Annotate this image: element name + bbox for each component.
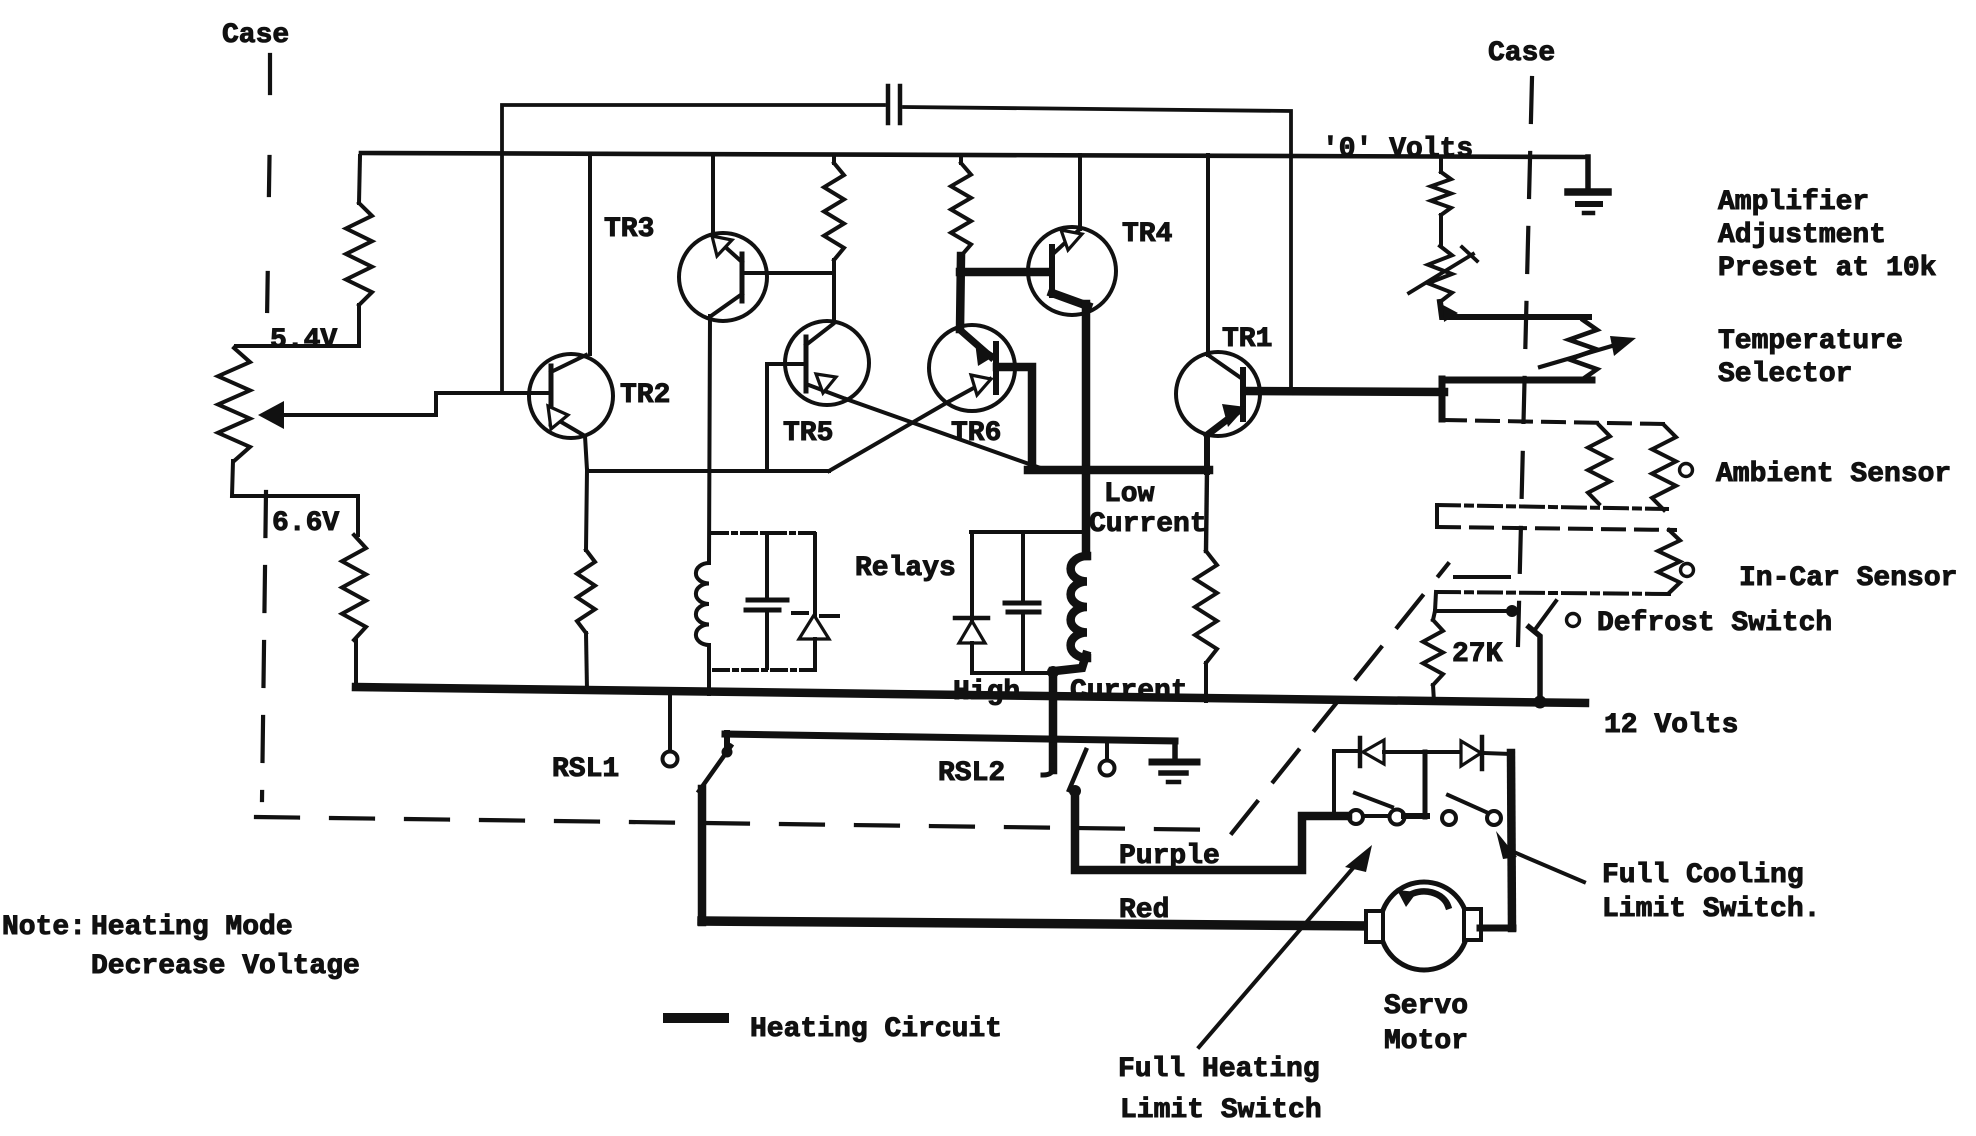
capacitor (RSL2 suppression) xyxy=(1021,532,1025,600)
wire selector node down (heating circuit) xyxy=(1439,379,1446,419)
resistor (0V to TR5 collector) xyxy=(832,156,836,163)
relay RSL1 box bottom (dash-dot) xyxy=(714,668,816,672)
svg-text:Limit Switch: Limit Switch xyxy=(1120,1095,1322,1126)
svg-text:Amplifier: Amplifier xyxy=(1718,187,1869,218)
wire 12 Volts rail xyxy=(356,687,1585,703)
wire diode loop right leg (heating circuit) xyxy=(1511,753,1512,928)
potentiometer wiper arrow xyxy=(258,401,284,429)
junction dot on 12V rail xyxy=(1534,696,1547,709)
wire limit switch centre link xyxy=(1404,813,1427,819)
relay RSL2 box left xyxy=(970,532,974,673)
transistor TR2 xyxy=(529,354,613,438)
switch RSL2 moving arm xyxy=(1069,750,1086,790)
wire TR1 emitter xyxy=(1204,435,1210,472)
wire TR5 collector xyxy=(832,260,836,322)
switch RSL2 pole wire from coil xyxy=(1043,766,1053,775)
wire Purple (heating circuit) xyxy=(1075,791,1348,870)
svg-text:6.6V: 6.6V xyxy=(272,508,339,539)
svg-text:TR4: TR4 xyxy=(1122,219,1172,250)
wire 5.4V node xyxy=(236,344,359,348)
svg-text:Case: Case xyxy=(222,20,289,51)
svg-text:Current: Current xyxy=(1070,676,1188,707)
temperature selector rheostat xyxy=(1569,320,1597,379)
wire to in-car sensor (dashed) xyxy=(1438,527,1675,530)
resistor (TR1 emitter to rail) xyxy=(1206,470,1207,551)
servo motor rotation arrow xyxy=(1408,891,1448,906)
svg-text:Decrease Voltage: Decrease Voltage xyxy=(91,951,360,982)
capacitor C1 (top feedback) xyxy=(886,86,891,123)
wire TR4 collector xyxy=(1078,155,1082,229)
wire TR1 collector xyxy=(1206,155,1210,355)
wire Red (heating circuit) xyxy=(702,921,1370,926)
wire RSL1 arm to RSL2/ground (heating circuit) xyxy=(725,734,1175,741)
in-car sensor terminal xyxy=(1681,564,1694,577)
wire low-current node to TR1 emitter (heating circuit) xyxy=(1028,466,1209,475)
capacitor (RSL1 suppression) xyxy=(765,533,769,597)
wire TR6 base (heating circuit) xyxy=(997,367,1032,466)
arrow full-heating pointer xyxy=(1345,845,1372,872)
wire to ambient sensor (dashed) xyxy=(1444,420,1664,424)
wire preset to selector top (heating circuit) xyxy=(1440,302,1589,317)
wire RSL2 coil to switch (heating circuit) xyxy=(1053,655,1086,770)
potentiometer (temperature bridge) xyxy=(218,348,250,461)
wire top feedback loop left+top xyxy=(502,105,884,393)
dashed heating-mode boundary (diagonal) xyxy=(1232,564,1448,833)
transistor TR3 xyxy=(679,233,767,321)
relay RSL1 coil xyxy=(696,563,709,645)
svg-text:Ambient Sensor: Ambient Sensor xyxy=(1716,459,1951,490)
diode (RSL1 suppression) xyxy=(799,615,829,639)
svg-text:Full Heating: Full Heating xyxy=(1118,1054,1320,1085)
switch defrost moving arm xyxy=(1534,601,1556,631)
wire TR5 base xyxy=(767,362,804,366)
relay RSL1 box right side xyxy=(813,534,817,669)
svg-text:RSL1: RSL1 xyxy=(552,754,619,785)
wire TR1 base (heating circuit) xyxy=(1245,391,1444,392)
resistor (0V to 5.4V tap) xyxy=(346,203,372,305)
wire selector bottom (heating circuit) xyxy=(1442,377,1592,384)
ambient sensor terminal xyxy=(1680,464,1693,477)
svg-text:Adjustment: Adjustment xyxy=(1718,220,1886,251)
svg-text:TR5: TR5 xyxy=(783,418,833,449)
wire TR5 emitter cross-link to low-current node xyxy=(846,399,1046,470)
wire top feedback loop right side xyxy=(904,107,1291,389)
wire TR4 base from TR6 (heating circuit) xyxy=(960,268,1049,277)
temperature selector wiper arrow xyxy=(1540,346,1612,367)
svg-text:Relays: Relays xyxy=(855,553,956,584)
switch full-cooling limit contacts xyxy=(1442,811,1456,825)
wire in-car bottom (dash-dot) xyxy=(1437,592,1672,594)
wire diode loop centre leg xyxy=(1423,752,1428,817)
wire TR3 collector xyxy=(711,155,715,236)
relay RSL2 coil (heating circuit) xyxy=(1071,556,1087,658)
svg-text:TR1: TR1 xyxy=(1222,324,1272,355)
arrow full-cooling pointer xyxy=(1496,831,1517,859)
resistor amplifier preset lower (adjustable) xyxy=(1428,246,1452,302)
svg-text:Servo: Servo xyxy=(1384,991,1468,1022)
servo motor xyxy=(1380,882,1468,970)
wire TR6 collector (heating circuit) xyxy=(960,256,961,329)
diode (RSL2 suppression) xyxy=(959,621,985,643)
diode (full cooling bypass) xyxy=(1461,741,1481,766)
dashed heating-mode boundary (horizontal) xyxy=(256,817,1226,830)
svg-text:27K: 27K xyxy=(1452,639,1503,670)
svg-text:Defrost Switch: Defrost Switch xyxy=(1597,608,1832,639)
svg-text:Note:: Note: xyxy=(2,912,86,943)
wire TR4 emitter down (heating circuit) xyxy=(1082,304,1091,556)
svg-text:TR3: TR3 xyxy=(604,214,654,245)
svg-text:Limit Switch.: Limit Switch. xyxy=(1602,894,1820,925)
svg-text:Motor: Motor xyxy=(1384,1026,1468,1057)
resistor (6.6V to 12V rail) xyxy=(342,535,366,640)
resistor (0V to TR6 collector) xyxy=(959,156,963,163)
svg-text:TR2: TR2 xyxy=(620,380,670,411)
wire TR3 base to TR5 collector xyxy=(742,271,834,275)
wire TR6 emitter cross-link to TR2 node xyxy=(829,402,948,471)
ground symbol (0V rail) xyxy=(1585,157,1591,191)
relay RSL1 box top (dash-dot) xyxy=(713,531,815,535)
wire '0' Volts rail xyxy=(361,153,1588,157)
svg-text:Heating Mode: Heating Mode xyxy=(91,912,293,943)
switch RSL2 fixed contact xyxy=(1105,741,1109,759)
wire ambient bottom (dash-dot) xyxy=(1437,505,1667,509)
relay RSL2 box bottom xyxy=(972,671,1051,675)
wire in-car node down xyxy=(1435,592,1436,611)
wire TR2 emitter xyxy=(585,436,587,470)
svg-text:12 Volts: 12 Volts xyxy=(1604,710,1738,741)
resistor amplifier preset upper xyxy=(1439,158,1443,172)
defrost switch terminal xyxy=(1567,614,1580,627)
switch full-heating limit contacts xyxy=(1349,810,1363,824)
relay RSL2 box top xyxy=(971,530,1082,534)
switch RSL1 moving arm xyxy=(699,746,731,791)
wire TR2 collector xyxy=(588,154,592,354)
ground symbol (RSL2 contact) xyxy=(1172,741,1178,761)
wire diode loop left leg xyxy=(1332,751,1336,816)
wire servo to cooling switch (heating circuit) xyxy=(1480,925,1513,932)
svg-text:'0' Volts: '0' Volts xyxy=(1322,134,1473,165)
case boundary dashed line (right) xyxy=(1518,78,1532,645)
transistor TR4 xyxy=(1028,227,1116,315)
svg-text:Current: Current xyxy=(1089,509,1207,540)
svg-text:In-Car Sensor: In-Car Sensor xyxy=(1739,563,1957,594)
wire TR3 emitter down to relay coil xyxy=(709,316,710,563)
svg-text:Case: Case xyxy=(1488,38,1555,69)
switch RSL1 fixed contact xyxy=(668,696,672,751)
wire sensor chain left link xyxy=(1435,505,1439,527)
wire TR2 emitter node to TR6 link xyxy=(587,469,829,473)
svg-text:Preset at 10k: Preset at 10k xyxy=(1718,253,1937,284)
wire RSL1 pole down (heating circuit) xyxy=(698,789,707,922)
resistor (TR2 emitter to rail) xyxy=(586,470,587,550)
ambient sensor resistor pair xyxy=(1588,425,1610,504)
svg-text:Full Cooling: Full Cooling xyxy=(1602,860,1804,891)
diode (full heating bypass) xyxy=(1334,749,1359,753)
svg-text:5.4V: 5.4V xyxy=(270,325,337,356)
svg-text:Heating Circuit: Heating Circuit xyxy=(750,1014,1002,1045)
transistor TR5 xyxy=(785,321,869,405)
wire potentiometer bottom to 6.6V xyxy=(232,461,358,535)
in-car sensor resistor xyxy=(1658,530,1680,593)
legend heating-circuit sample bar xyxy=(668,1013,724,1023)
resistor 27K xyxy=(1433,611,1435,620)
transistor TR6 xyxy=(929,325,1015,411)
svg-text:Low: Low xyxy=(1104,479,1155,510)
svg-text:Temperature: Temperature xyxy=(1718,326,1903,357)
switch defrost fixed contact xyxy=(1435,609,1508,613)
case boundary dashed line (left) xyxy=(268,55,272,93)
svg-text:RSL2: RSL2 xyxy=(938,758,1005,789)
transistor TR1 xyxy=(1176,352,1260,436)
svg-text:Selector: Selector xyxy=(1718,359,1852,390)
